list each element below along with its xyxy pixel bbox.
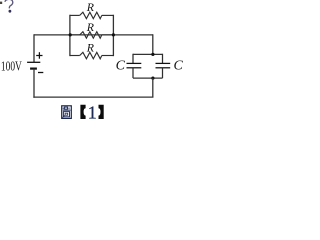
battery minus sign	[38, 72, 43, 74]
battery B1 plates	[27, 62, 40, 68]
wire: left vertical above battery	[33, 34, 35, 62]
wire: down from capacitor bottom rail to bottom rail	[152, 78, 154, 97]
capacitor C2 (right)	[156, 54, 171, 78]
svg-text:R: R	[86, 0, 95, 14]
cropped glyph fragment at left edge	[0, 2, 2, 4]
svg-text:C: C	[174, 59, 184, 74]
wire: resistor bank right rail	[112, 15, 114, 56]
caption character 圖 (drawn)	[62, 106, 72, 119]
resistor R (bottom)	[70, 52, 114, 59]
wire: left vertical below battery	[33, 69, 35, 98]
svg-text:R: R	[86, 40, 95, 54]
question mark (cropped at top)	[5, 0, 13, 13]
wire: main top rail from battery to resistor bank to capacitors	[34, 34, 153, 36]
svg-text:C: C	[116, 59, 126, 74]
node: left rail junction	[69, 33, 72, 36]
resistor R (middle)	[70, 32, 114, 39]
resistor R (top)	[70, 12, 114, 19]
capacitor C1 (left)	[127, 54, 142, 78]
wire: bottom rail	[33, 96, 153, 98]
node: right rail junction	[112, 33, 115, 36]
svg-text:R: R	[86, 20, 95, 34]
wire: capacitor top rail	[133, 53, 163, 55]
svg-text:100V: 100V	[1, 59, 22, 74]
wire: capacitor bottom rail	[133, 77, 163, 79]
wire: down from main rail to capacitor top rail	[152, 34, 154, 54]
battery plus sign	[36, 52, 42, 59]
node: capacitor bottom rail junction	[151, 77, 154, 80]
caption bracket 】	[99, 105, 104, 119]
node: capacitor top rail junction	[151, 53, 154, 56]
caption bracket 【	[80, 105, 85, 119]
svg-text:1: 1	[88, 102, 97, 122]
wire: resistor bank left rail	[69, 15, 71, 56]
